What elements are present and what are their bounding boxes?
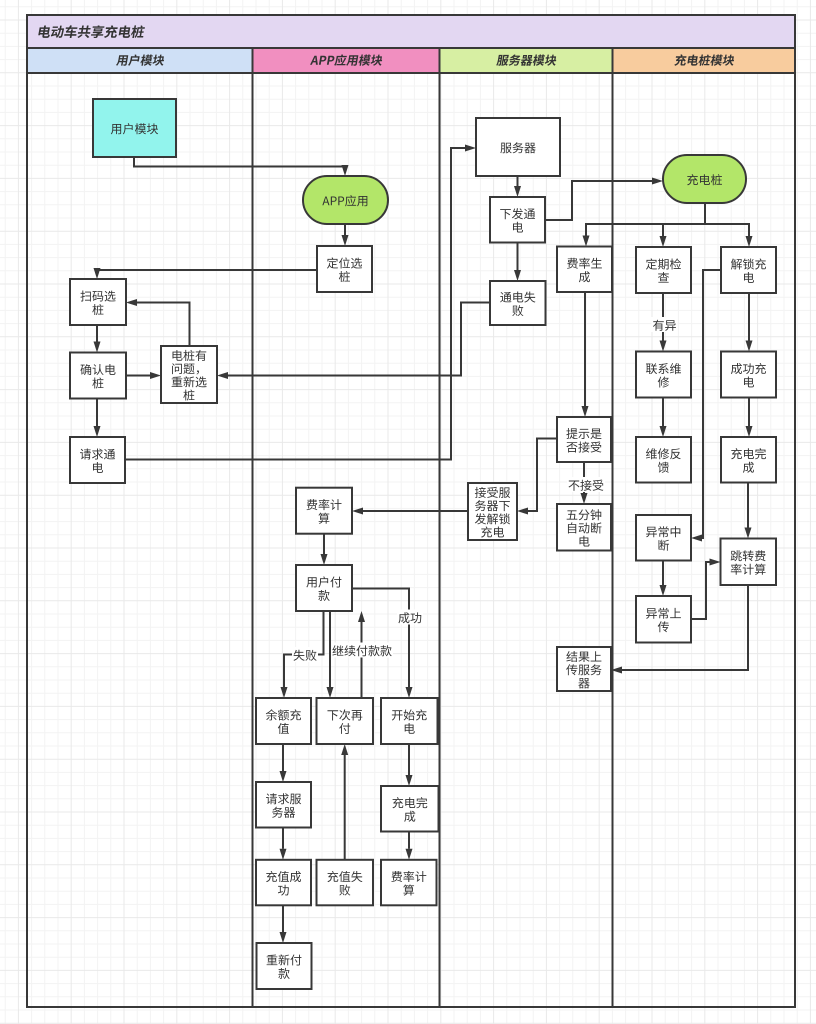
node 充电完成 app lane bbox=[381, 786, 439, 832]
node 成功充电 bbox=[721, 352, 776, 398]
node 提示是否接受 bbox=[557, 417, 611, 462]
node 扫码选桩 bbox=[70, 279, 126, 325]
node 充电桩 bbox=[663, 155, 746, 203]
wire 下发通电 to 充电桩 bbox=[545, 178, 663, 221]
wire 下次再付 继续付款 to 用户付款 bbox=[358, 611, 365, 698]
wire 用户付款 失败 to 余额充值 bbox=[281, 611, 324, 698]
node 定位选桩 bbox=[317, 246, 372, 292]
node 电桩有问题重新选桩 bbox=[161, 346, 217, 403]
node 费率计算 bbox=[296, 488, 352, 534]
label 继续付款款 bbox=[331, 643, 393, 658]
node 请求服务器 bbox=[256, 782, 311, 828]
wire 扫码选桩 to 确认电桩 bbox=[94, 325, 101, 353]
node APP应用 bbox=[303, 176, 388, 224]
wire 充电完成 to 跳转费率计算 bbox=[745, 483, 752, 539]
node 确认电桩 bbox=[70, 353, 126, 399]
wire APP应用 to 定位选桩 bbox=[342, 224, 349, 246]
wire 充电完成 to 费率计算2 bbox=[406, 832, 413, 860]
node 下次再付 bbox=[317, 698, 374, 744]
wire 余额充值 to 请求服务器 bbox=[280, 744, 287, 782]
node 定期检查 bbox=[636, 247, 691, 293]
node 解锁充电 bbox=[721, 247, 776, 293]
wire 服务器 to 下发通电 bbox=[514, 176, 521, 197]
wire 充值失败 to 下次再付 bbox=[341, 744, 348, 860]
wire 跳转费率计算 to 结果上传服务器 bbox=[611, 585, 748, 674]
label 失败 bbox=[292, 647, 318, 662]
node 余额充值 bbox=[256, 698, 311, 744]
wire 通电失败 to 电桩有问题重新选桩 bbox=[217, 303, 490, 380]
node 接受服务器下发解锁充电 bbox=[468, 483, 517, 540]
node 费率生成 bbox=[557, 247, 612, 293]
wire 充值成功 to 重新付款 bbox=[280, 905, 287, 943]
node 异常中断 bbox=[636, 515, 691, 561]
wire 请求服务器 to 充值成功 bbox=[280, 828, 287, 860]
node 通电失败 bbox=[490, 281, 546, 325]
wire 请求通电 to 服务器 bbox=[125, 145, 476, 460]
wire 提示是否接受 不接受 to 五分钟自动断电 bbox=[581, 462, 588, 504]
label 有异 bbox=[652, 317, 678, 332]
node 重新付款 bbox=[257, 943, 312, 989]
wire 定期检查 有异 to 联系维修 bbox=[660, 293, 667, 352]
node 维修反馈 bbox=[636, 437, 691, 483]
wire 异常上传 to 跳转费率计算 bbox=[691, 559, 721, 620]
wire 提示是否接受 to 接受服务器下发解锁充电 bbox=[517, 439, 557, 515]
node 费率计算2 bbox=[381, 860, 437, 906]
label 成功 bbox=[397, 610, 423, 625]
wire 充电桩 to 费率生成 bbox=[583, 203, 706, 247]
wire 开始充电 to 充电完成 bbox=[406, 744, 413, 786]
node 结果上传服务器 bbox=[557, 647, 611, 691]
wire 下发通电 to 通电失败 bbox=[514, 243, 521, 282]
wire 接受服务器下发解锁充电 to 费率计算 bbox=[352, 508, 468, 515]
wire 解锁充电 to 异常中断 bbox=[691, 270, 721, 542]
wire 用户付款 to 下次再付 bbox=[327, 611, 334, 698]
wire 用户付款 成功 to 开始充电 bbox=[352, 589, 413, 699]
node 请求通电 bbox=[70, 437, 125, 483]
node 充值成功 bbox=[256, 860, 311, 906]
wire 确认电桩 to 请求通电 bbox=[94, 399, 101, 438]
pool title bar 电动车共享充电桩 bbox=[27, 15, 795, 48]
node 五分钟自动断电 bbox=[557, 504, 611, 551]
node 异常上传 bbox=[636, 596, 691, 643]
lane header 充电桩模块 bbox=[613, 48, 796, 73]
node 充电完成 charging pile lane bbox=[721, 437, 776, 483]
node 服务器 bbox=[476, 118, 560, 176]
wire 解锁充电 to 成功充电 bbox=[746, 293, 753, 352]
wire 充电桩 to 解锁充电 bbox=[705, 203, 753, 247]
wire 确认电桩 to 电桩有问题重新选桩 bbox=[126, 372, 161, 379]
wire 联系维修 to 维修反馈 bbox=[660, 398, 667, 438]
wire 充电桩 to 定期检查 bbox=[660, 203, 706, 247]
node 用户付款 bbox=[296, 565, 352, 611]
node 充值失败 bbox=[317, 860, 374, 906]
wire 费率生成 to 提示是否接受 bbox=[582, 292, 589, 417]
wire 电桩有问题重新选桩 to 扫码选桩 bbox=[126, 299, 190, 346]
label 不接受 bbox=[567, 477, 605, 492]
node 下发通电 bbox=[490, 197, 545, 243]
node 开始充电 bbox=[381, 698, 438, 744]
lane header 用户模块 bbox=[27, 48, 253, 73]
wire 成功充电 to 充电完成 bbox=[746, 398, 753, 438]
lane header 服务器模块 bbox=[440, 48, 613, 73]
node 跳转费率计算 bbox=[721, 539, 777, 586]
wire 费率计算 to 用户付款 bbox=[321, 534, 328, 565]
wire 用户模块 to APP应用 bbox=[134, 157, 349, 176]
node 用户模块 bbox=[93, 99, 176, 157]
node 联系维修 bbox=[636, 352, 691, 398]
wire 异常中断 to 异常上传 bbox=[660, 561, 667, 597]
wire 定位选桩 to 扫码选桩 bbox=[94, 268, 318, 279]
lane header APP应用模块 bbox=[253, 48, 440, 73]
